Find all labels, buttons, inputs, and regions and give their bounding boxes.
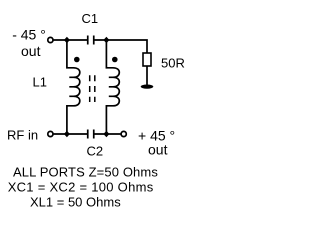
port P2 (RF in) terminal circle: [48, 131, 53, 136]
svg-text:- 45 °: - 45 °: [12, 26, 46, 42]
svg-text:RF in: RF in: [7, 128, 38, 143]
phasing dot left: [74, 57, 80, 63]
junction node bottom-left: [64, 131, 70, 138]
port P1 (-45 out) terminal circle: [48, 37, 53, 42]
svg-text:C2: C2: [87, 143, 104, 158]
svg-text:50R: 50R: [161, 56, 185, 71]
port P3 (+45 out) terminal circle: [121, 131, 126, 136]
phasing dot right: [112, 57, 118, 63]
transformer core dashed lines: [90, 75, 95, 102]
resistor 50R body: [143, 53, 151, 66]
junction node top-right: [103, 37, 109, 44]
junction node bottom-right: [103, 131, 109, 138]
capacitor C1 plates: [88, 36, 94, 45]
wire bottom-right: C2 to P3: [95, 133, 122, 135]
junction node top-left: [64, 37, 70, 44]
inductor L1 right winding with top/bottom stubs: [106, 40, 119, 134]
svg-text:out: out: [148, 142, 168, 158]
wire bottom-left: P2 to C2 left plate: [53, 133, 87, 135]
svg-text:C1: C1: [82, 11, 99, 26]
svg-text:ALL PORTS Z=50 Ohms: ALL PORTS Z=50 Ohms: [13, 164, 158, 179]
wire: resistor bottom lead: [146, 66, 148, 85]
svg-text:XC1 = XC2 = 100 Ohms: XC1 = XC2 = 100 Ohms: [8, 179, 154, 194]
svg-text:XL1 = 50 Ohms: XL1 = 50 Ohms: [30, 194, 121, 209]
svg-text:out: out: [21, 43, 41, 59]
capacitor C2 plates: [88, 130, 94, 139]
inductor L1 left winding with top/bottom stubs: [67, 40, 80, 134]
ground symbol: [141, 85, 154, 89]
wire top-right: C1 to resistor top corner: [95, 40, 148, 53]
wire top-left: P1 to C1 left plate: [53, 39, 87, 41]
svg-text:L1: L1: [33, 75, 47, 90]
